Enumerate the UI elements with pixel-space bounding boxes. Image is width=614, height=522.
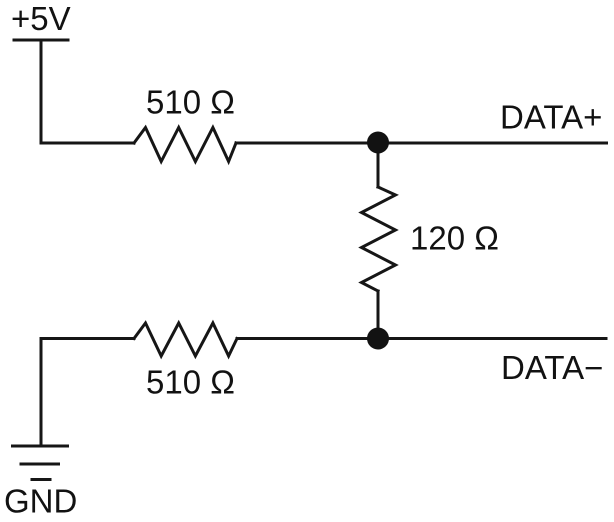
svg-text:510 Ω: 510 Ω <box>146 84 235 121</box>
svg-text:DATA+: DATA+ <box>500 99 602 136</box>
wire top rail right segment to DATA+ <box>236 142 607 145</box>
svg-text:120 Ω: 120 Ω <box>410 220 499 257</box>
wire top rail left segment <box>41 142 134 144</box>
ground symbol <box>13 445 68 448</box>
resistor R1 510 ohm (top) <box>134 128 236 162</box>
node junction top (DATA+ / 120 ohm) <box>367 132 389 154</box>
wire from +5V rail to top rail <box>40 42 43 144</box>
resistor R2 510 ohm (bottom) <box>134 323 237 356</box>
node junction bottom (DATA- / 120 ohm) <box>367 328 389 350</box>
svg-text:510 Ω: 510 Ω <box>146 364 235 401</box>
svg-text:DATA−: DATA− <box>501 349 603 386</box>
resistor R3 120 ohm (vertical) <box>362 187 396 291</box>
svg-text:GND: GND <box>4 483 77 520</box>
svg-text:+5V: +5V <box>11 0 71 37</box>
power rail +5V bar <box>14 39 68 42</box>
wire bottom rail right segment to DATA- <box>237 337 606 340</box>
wire junction to 120 ohm resistor <box>377 143 380 187</box>
wire 120 ohm resistor to bottom junction <box>377 291 380 339</box>
wire bottom rail left segment with drop to ground <box>41 339 134 447</box>
